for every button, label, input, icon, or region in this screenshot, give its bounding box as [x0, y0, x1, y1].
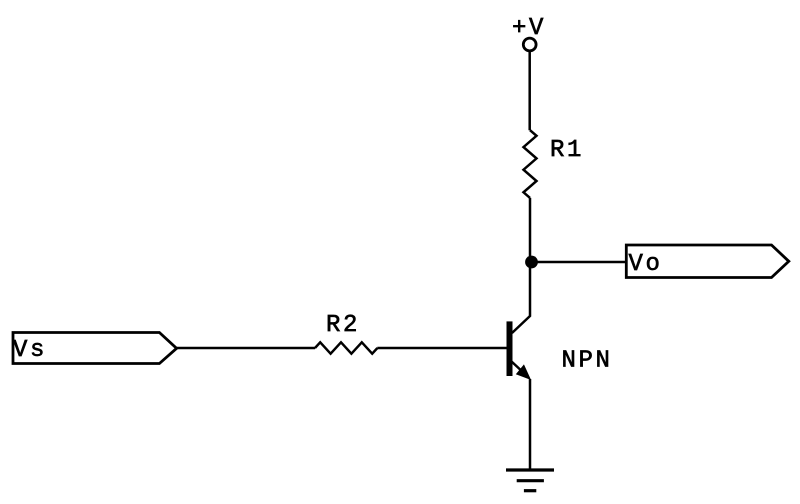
wire base: [377, 347, 506, 350]
transistor Q1 emitter arrowhead: [517, 366, 530, 380]
wire supply to R1: [528, 52, 531, 131]
svg-text:NPN: NPN: [562, 348, 613, 375]
ground: [506, 470, 554, 491]
output flag Vo: [626, 245, 789, 278]
svg-text:R2: R2: [326, 312, 360, 339]
wire node to Vo: [531, 261, 626, 264]
svg-text:Vs: Vs: [13, 337, 47, 364]
node junction dot: [525, 256, 538, 269]
power +V terminal circle: [523, 38, 536, 51]
svg-text:Vo: Vo: [629, 251, 663, 278]
wire emitter to ground: [529, 379, 532, 470]
svg-text:R1: R1: [550, 137, 584, 164]
resistor R1: [524, 130, 537, 198]
transistor Q1 base bar: [507, 321, 513, 376]
input flag Vs: [13, 333, 177, 364]
wire node to collector: [512, 262, 530, 333]
resistor R2: [315, 342, 377, 353]
wire R1 to node: [529, 198, 532, 262]
transistor Q1 emitter: [511, 361, 526, 375]
wire R2 to Vs: [177, 347, 316, 350]
